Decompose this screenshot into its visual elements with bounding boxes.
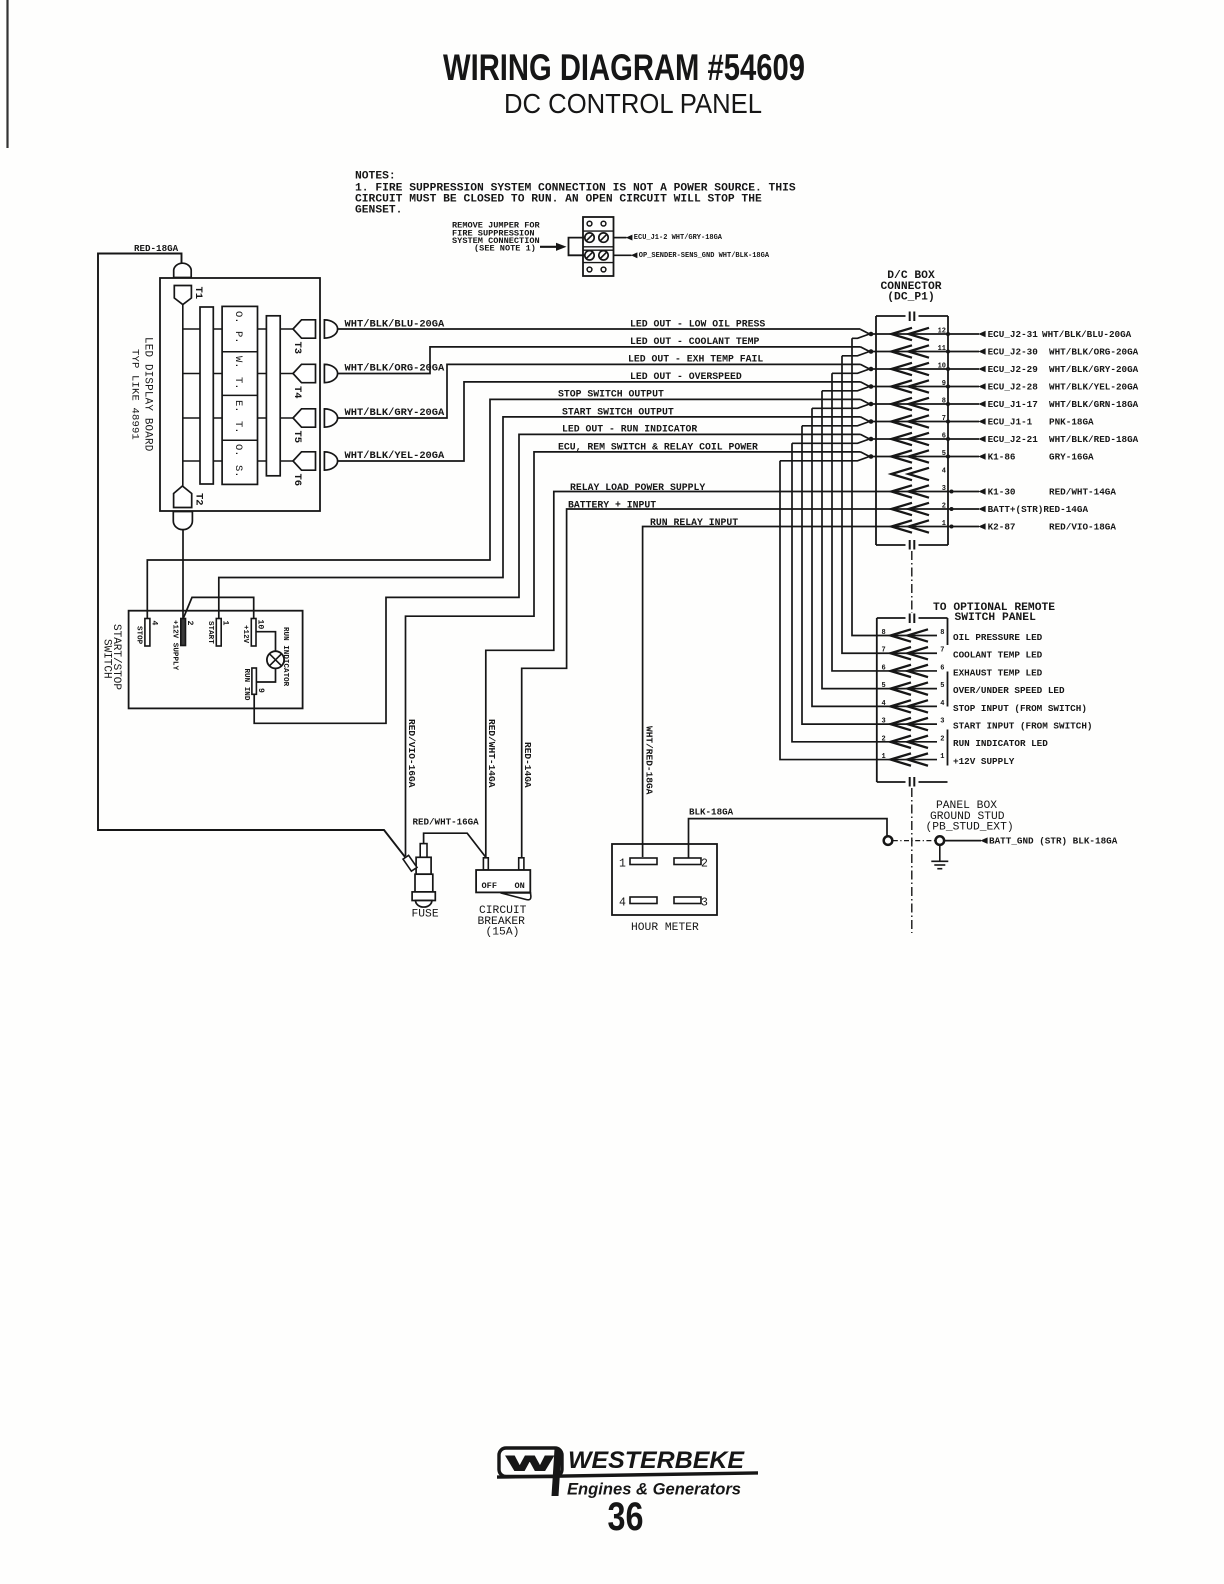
svg-text:START INPUT (FROM SWITCH): START INPUT (FROM SWITCH)	[953, 721, 1092, 732]
svg-text:(DC_P1): (DC_P1)	[887, 292, 934, 304]
svg-text:O.: O.	[232, 444, 244, 457]
svg-text:5: 5	[882, 682, 886, 690]
svg-text:(SEE NOTE 1): (SEE NOTE 1)	[474, 244, 536, 254]
svg-text:10: 10	[938, 363, 946, 371]
svg-text:TYP LIKE 48991: TYP LIKE 48991	[129, 349, 141, 440]
svg-text:7: 7	[942, 415, 946, 423]
pin T1	[174, 286, 191, 305]
wire RUN RELAY INPUT / WHT/RED-18GA	[643, 527, 876, 858]
+12V link pin2 to pin10	[183, 597, 254, 618]
svg-text:(15A): (15A)	[486, 927, 520, 939]
svg-text:RED-18GA: RED-18GA	[134, 243, 179, 254]
terminal ring left	[884, 836, 893, 845]
hour meter terminal 2	[674, 858, 701, 865]
D/C box outline	[876, 315, 906, 317]
svg-text:11: 11	[938, 345, 946, 353]
switch pin 1 START	[216, 619, 221, 647]
shell symbol top	[909, 614, 911, 624]
svg-text:RED-14GA: RED-14GA	[1043, 504, 1088, 515]
junction node pin 8	[861, 399, 870, 404]
connector dome above T1	[174, 263, 192, 277]
svg-text:WHT/BLK/ORG-20GA: WHT/BLK/ORG-20GA	[1049, 347, 1139, 358]
remote pin 6 : EXHAUST TEMP LED	[877, 670, 937, 672]
svg-text:10: 10	[256, 620, 265, 630]
svg-text:DC CONTROL PANEL: DC CONTROL PANEL	[504, 88, 762, 119]
shell symbol top	[909, 312, 911, 322]
svg-text:RELAY LOAD POWER SUPPLY: RELAY LOAD POWER SUPPLY	[570, 482, 705, 493]
switch pin 2 +12V SUPPLY	[181, 619, 186, 646]
wire branch D/C pin 6 to remote pin 2	[792, 443, 877, 742]
pin T2	[174, 486, 192, 508]
svg-text:6: 6	[882, 664, 886, 672]
ground symbol	[939, 845, 941, 861]
svg-text:3: 3	[940, 718, 944, 726]
remote panel outline	[877, 617, 906, 619]
wire LED OUT - LOW OIL PRESS	[338, 328, 861, 330]
svg-text:WHT/RED-18GA: WHT/RED-18GA	[644, 726, 655, 795]
svg-text:OIL PRESSURE LED: OIL PRESSURE LED	[953, 632, 1043, 643]
svg-text:WHT/BLK/RED-18GA: WHT/BLK/RED-18GA	[1049, 434, 1139, 445]
wire branch D/C pin 8 to remote pin 4	[812, 408, 877, 706]
svg-text:T5: T5	[291, 431, 303, 444]
D/C pin 6 : ECU_J2-21 WHT/BLK/RED-18GA	[876, 438, 948, 440]
svg-text:LED DISPLAY BOARD: LED DISPLAY BOARD	[142, 337, 154, 452]
wire branch D/C pin 10 to remote pin 6	[832, 373, 877, 671]
wire LED OUT - COOLANT TEMP	[338, 347, 861, 374]
D/C pin 3 : K1-30 RED/WHT-14GA	[876, 491, 948, 493]
svg-text:SWITCH: SWITCH	[101, 639, 113, 679]
hour meter terminal 4	[630, 897, 657, 904]
svg-text:START: START	[206, 621, 214, 644]
svg-text:6: 6	[940, 664, 944, 672]
svg-text:COOLANT TEMP LED: COOLANT TEMP LED	[953, 650, 1043, 661]
arrow to jumper	[540, 246, 559, 248]
svg-text:WIRING DIAGRAM #54609: WIRING DIAGRAM #54609	[443, 47, 805, 88]
D/C pin 8 : ECU_J1-17 WHT/BLK/GRN-18GA	[876, 403, 948, 405]
svg-text:RUN RELAY INPUT: RUN RELAY INPUT	[650, 517, 738, 528]
wire T2 to switch pin 2	[182, 530, 184, 619]
svg-text:T6: T6	[291, 474, 303, 487]
D/C pin 4 (no wire)	[892, 468, 913, 480]
logo pole	[552, 1449, 562, 1496]
junction node pin 11	[861, 347, 870, 352]
shell symbol bottom	[909, 777, 911, 787]
svg-text:LED OUT - EXH TEMP FAIL: LED OUT - EXH TEMP FAIL	[628, 354, 763, 365]
svg-text:8: 8	[942, 398, 946, 406]
svg-text:T4: T4	[291, 386, 303, 399]
panel boundary centre line	[911, 551, 913, 613]
svg-text:4: 4	[882, 700, 886, 708]
wire LED OUT - EXH TEMP FAIL	[338, 364, 861, 418]
svg-text:STOP SWITCH OUTPUT: STOP SWITCH OUTPUT	[558, 389, 664, 400]
svg-text:ECU_J2-29: ECU_J2-29	[988, 364, 1039, 375]
svg-text:LED OUT - RUN INDICATOR: LED OUT - RUN INDICATOR	[562, 424, 697, 435]
wire BATTERY + INPUT	[522, 509, 876, 857]
svg-text:1: 1	[882, 753, 886, 761]
svg-text:RED/WHT-16GA: RED/WHT-16GA	[413, 817, 480, 828]
LED display board outline	[160, 278, 320, 511]
scan artifact left edge	[6, 0, 8, 148]
remote pin 2 : RUN INDICATOR LED	[877, 741, 937, 743]
svg-text:HOUR METER: HOUR METER	[631, 922, 699, 934]
svg-text:36: 36	[608, 1495, 644, 1539]
svg-text:(PB_STUD_EXT): (PB_STUD_EXT)	[926, 822, 1014, 834]
svg-text:BATT+(STR): BATT+(STR)	[988, 504, 1044, 515]
svg-text:1: 1	[942, 520, 946, 528]
start/stop switch box	[129, 611, 303, 709]
svg-text:ECU_J1-17: ECU_J1-17	[988, 399, 1038, 410]
svg-text:W: W	[507, 1453, 554, 1476]
remote pin 4 : STOP INPUT (FROM SWITCH)	[877, 705, 937, 707]
panel box ground stud PB_STUD_EXT	[936, 836, 945, 845]
junction node pin 6	[861, 434, 870, 439]
switch pin 4 STOP	[145, 619, 150, 647]
svg-text:T2: T2	[193, 493, 205, 506]
svg-text:RUN INDICATOR LED: RUN INDICATOR LED	[953, 738, 1048, 749]
fuse side terminal	[403, 855, 417, 871]
breaker toggle lever	[501, 893, 531, 900]
svg-text:NOTES:: NOTES:	[355, 171, 396, 183]
svg-text:BATTERY + INPUT: BATTERY + INPUT	[568, 499, 656, 510]
svg-text:GRY-16GA: GRY-16GA	[1049, 452, 1094, 463]
svg-text:5: 5	[940, 682, 944, 690]
svg-text:T3: T3	[291, 342, 303, 355]
svg-text:2: 2	[882, 735, 886, 743]
svg-text:5: 5	[942, 450, 946, 458]
svg-text:S.: S.	[232, 465, 244, 478]
svg-text:8: 8	[882, 629, 886, 637]
svg-text:RED/WHT-14GA: RED/WHT-14GA	[486, 719, 497, 788]
LED segment block O.P. W.T. E.T. O.S.	[222, 306, 257, 484]
svg-text:7: 7	[940, 647, 944, 655]
svg-text:Engines & Generators: Engines & Generators	[567, 1481, 741, 1499]
wire branch D/C pin 7 to remote pin 3	[802, 426, 877, 724]
svg-text:9: 9	[942, 380, 946, 388]
svg-text:ECU_J2-28: ECU_J2-28	[988, 382, 1039, 393]
remote pin 8 : OIL PRESSURE LED	[877, 635, 937, 637]
remote pin 5 : OVER/UNDER SPEED LED	[877, 688, 937, 690]
svg-text:K1-30: K1-30	[988, 487, 1016, 498]
svg-text:GENSET.: GENSET.	[355, 205, 402, 217]
svg-text:BATT_GND (STR) BLK-18GA: BATT_GND (STR) BLK-18GA	[989, 836, 1118, 847]
svg-text:START SWITCH OUTPUT: START SWITCH OUTPUT	[562, 406, 674, 417]
fuse	[420, 844, 427, 858]
junction node pin 12	[861, 329, 870, 334]
svg-text:ECU_J2-30: ECU_J2-30	[988, 347, 1039, 358]
svg-text:O.: O.	[232, 311, 244, 324]
svg-text:12: 12	[938, 328, 946, 336]
svg-text:6: 6	[942, 433, 946, 441]
svg-text:K1-86: K1-86	[988, 452, 1016, 463]
svg-text:+12V SUPPLY: +12V SUPPLY	[171, 620, 179, 671]
svg-text:SWITCH PANEL: SWITCH PANEL	[955, 612, 1037, 624]
wire STOP SWITCH OUTPUT	[147, 399, 860, 618]
remote pin 7 : COOLANT TEMP LED	[877, 652, 937, 654]
svg-text:ECU_J1-2 WHT/GRY-18GA: ECU_J1-2 WHT/GRY-18GA	[634, 234, 723, 242]
D/C pin 11 : ECU_J2-30 WHT/BLK/ORG-20GA	[876, 351, 948, 353]
svg-text:4: 4	[942, 468, 946, 476]
D/C pin 1 : K2-87 RED/VIO-18GA	[876, 526, 948, 528]
D/C pin 9 : ECU_J2-28 WHT/BLK/YEL-20GA	[876, 386, 948, 388]
svg-text:9: 9	[256, 688, 265, 693]
svg-text:FUSE: FUSE	[412, 909, 439, 921]
svg-text:OFF: OFF	[482, 881, 497, 891]
svg-text:RED/VIO-18GA: RED/VIO-18GA	[1049, 522, 1116, 533]
wire TB to OP_SENDER	[614, 254, 632, 256]
wire branch D/C pin 11 to remote pin 7	[842, 356, 877, 653]
D/C pin 7 : ECU_J1-1 PNK-18GA	[876, 421, 948, 423]
wire branch D/C pin 9 to remote pin 5	[822, 391, 877, 689]
svg-text:8: 8	[940, 629, 944, 637]
wire LED OUT - RUN INDICATOR	[254, 434, 860, 723]
svg-text:LED OUT - COOLANT TEMP: LED OUT - COOLANT TEMP	[630, 336, 759, 347]
wire to BATT_GND label	[944, 840, 981, 842]
switch pin 9 RUN IND	[252, 668, 257, 694]
svg-text:BLK-18GA: BLK-18GA	[689, 807, 734, 818]
D/C pin 5 : K1-86 GRY-16GA	[876, 456, 948, 458]
IC bar left	[200, 307, 213, 484]
D/C pin 10 : ECU_J2-29 WHT/BLK/GRY-20GA	[876, 368, 948, 370]
svg-text:ECU, REM SWITCH & RELAY COIL P: ECU, REM SWITCH & RELAY COIL POWER	[558, 441, 758, 452]
logo underline	[497, 1471, 758, 1479]
hour meter terminal 1	[630, 858, 657, 865]
svg-text:2: 2	[701, 858, 708, 871]
D/C pin 2 : BATT+(STR) RED-14GA	[876, 508, 948, 510]
wire branch D/C pin 12 to remote pin 8	[852, 338, 877, 635]
terminal block TB (fire suppression jumper)	[583, 217, 614, 276]
broken right edge segments	[947, 618, 949, 645]
junction node pin 7	[861, 417, 870, 422]
svg-text:1: 1	[619, 858, 626, 871]
svg-text:2: 2	[942, 503, 946, 511]
svg-text:4: 4	[619, 897, 626, 910]
svg-text:ECU_J1-1: ECU_J1-1	[988, 417, 1033, 428]
svg-text:T1: T1	[192, 287, 204, 300]
svg-text:LED OUT - LOW OIL PRESS: LED OUT - LOW OIL PRESS	[630, 318, 765, 329]
svg-text:W.: W.	[232, 356, 244, 369]
svg-text:T.: T.	[232, 377, 244, 390]
svg-text:EXHAUST TEMP LED: EXHAUST TEMP LED	[953, 667, 1043, 678]
wire RED/WHT-16GA fuse to breaker	[424, 833, 486, 857]
board internal bus wires	[183, 328, 293, 330]
svg-text:1: 1	[221, 621, 230, 626]
svg-text:OVER/UNDER SPEED LED: OVER/UNDER SPEED LED	[953, 685, 1065, 696]
svg-text:PNK-18GA: PNK-18GA	[1049, 417, 1094, 428]
svg-text:WESTERBEKE: WESTERBEKE	[568, 1447, 745, 1474]
Westerbeke logo flag outline	[499, 1448, 562, 1477]
dash-dot link to stud	[893, 840, 935, 842]
svg-text:3: 3	[942, 485, 946, 493]
svg-text:LED OUT - OVERSPEED: LED OUT - OVERSPEED	[630, 371, 742, 382]
junction node pin 10	[861, 364, 870, 369]
svg-text:P.: P.	[232, 331, 244, 344]
svg-text:K2-87: K2-87	[988, 522, 1016, 533]
wire TB to ECU_J1-2	[614, 237, 627, 239]
svg-text:+12V SUPPLY: +12V SUPPLY	[953, 756, 1015, 767]
svg-text:RED/WHT-14GA: RED/WHT-14GA	[1049, 487, 1116, 498]
remote pin 1 : +12V SUPPLY	[877, 759, 937, 761]
svg-text:+12V: +12V	[241, 625, 249, 644]
connector dome below T2	[173, 512, 192, 530]
wire branch D/C pin 5 to remote pin 1	[780, 461, 877, 760]
svg-text:RUN INDICATOR: RUN INDICATOR	[281, 627, 289, 687]
svg-text:WHT/BLK/GRN-18GA: WHT/BLK/GRN-18GA	[1049, 399, 1139, 410]
switch pin 10 +12V	[251, 619, 256, 647]
screw terminals	[585, 233, 594, 242]
svg-text:RED-14GA: RED-14GA	[522, 742, 533, 788]
IC bar right	[266, 316, 280, 476]
svg-text:WHT/BLK/BLU-20GA: WHT/BLK/BLU-20GA	[1042, 329, 1132, 340]
wire ECU REM SWITCH / RED/VIO-16GA to fuse	[406, 452, 861, 856]
svg-text:2: 2	[940, 735, 944, 743]
remote pin 3 : START INPUT (FROM SWITCH)	[877, 723, 937, 725]
hour meter terminal 3	[674, 897, 701, 904]
svg-text:4: 4	[940, 700, 944, 708]
wire RED-18GA top loop	[98, 254, 405, 858]
shell symbol bottom	[909, 540, 911, 550]
svg-text:3: 3	[882, 718, 886, 726]
svg-text:4: 4	[150, 621, 159, 626]
svg-text:WHT/BLK/GRY-20GA: WHT/BLK/GRY-20GA	[1049, 364, 1139, 375]
circuit breaker (15A)	[483, 858, 488, 870]
wire RELAY LOAD POWER SUPPLY	[486, 492, 876, 858]
svg-text:3: 3	[701, 897, 708, 910]
svg-text:RED/VIO-16GA: RED/VIO-16GA	[406, 719, 417, 788]
wire START SWITCH OUTPUT	[219, 417, 861, 619]
wire LED OUT - OVERSPEED	[338, 382, 861, 461]
svg-text:T.: T.	[232, 421, 244, 434]
svg-text:STOP INPUT (FROM SWITCH): STOP INPUT (FROM SWITCH)	[953, 703, 1087, 714]
svg-text:OP_SENDER-SENS_GND WHT/BLK-18G: OP_SENDER-SENS_GND WHT/BLK-18GA	[639, 252, 770, 260]
svg-text:STOP: STOP	[135, 626, 143, 645]
jumper bracket wire	[569, 238, 586, 256]
pins T3 T4 T5 T6 with external connector domes	[293, 320, 316, 338]
svg-text:1: 1	[940, 753, 944, 761]
junction node pin 9	[861, 382, 870, 387]
run indicator lamp	[256, 632, 276, 652]
svg-text:E.: E.	[232, 400, 244, 413]
svg-text:2: 2	[185, 621, 194, 626]
hour meter	[612, 844, 717, 915]
svg-text:WHT/BLK/YEL-20GA: WHT/BLK/YEL-20GA	[1049, 382, 1139, 393]
svg-text:CIRCUIT MUST BE CLOSED TO RUN.: CIRCUIT MUST BE CLOSED TO RUN. AN OPEN C…	[355, 194, 762, 206]
svg-text:RUN IND: RUN IND	[242, 669, 250, 701]
D/C pin 12 : ECU_J2-31 WHT/BLK/BLU-20GA	[876, 333, 948, 335]
svg-text:ON: ON	[515, 881, 525, 891]
svg-text:ECU_J2-31: ECU_J2-31	[988, 329, 1039, 340]
junction node pin 5	[861, 452, 870, 457]
wire BLK-18GA	[689, 819, 888, 858]
svg-text:7: 7	[882, 647, 886, 655]
svg-text:ECU_J2-21: ECU_J2-21	[988, 434, 1039, 445]
